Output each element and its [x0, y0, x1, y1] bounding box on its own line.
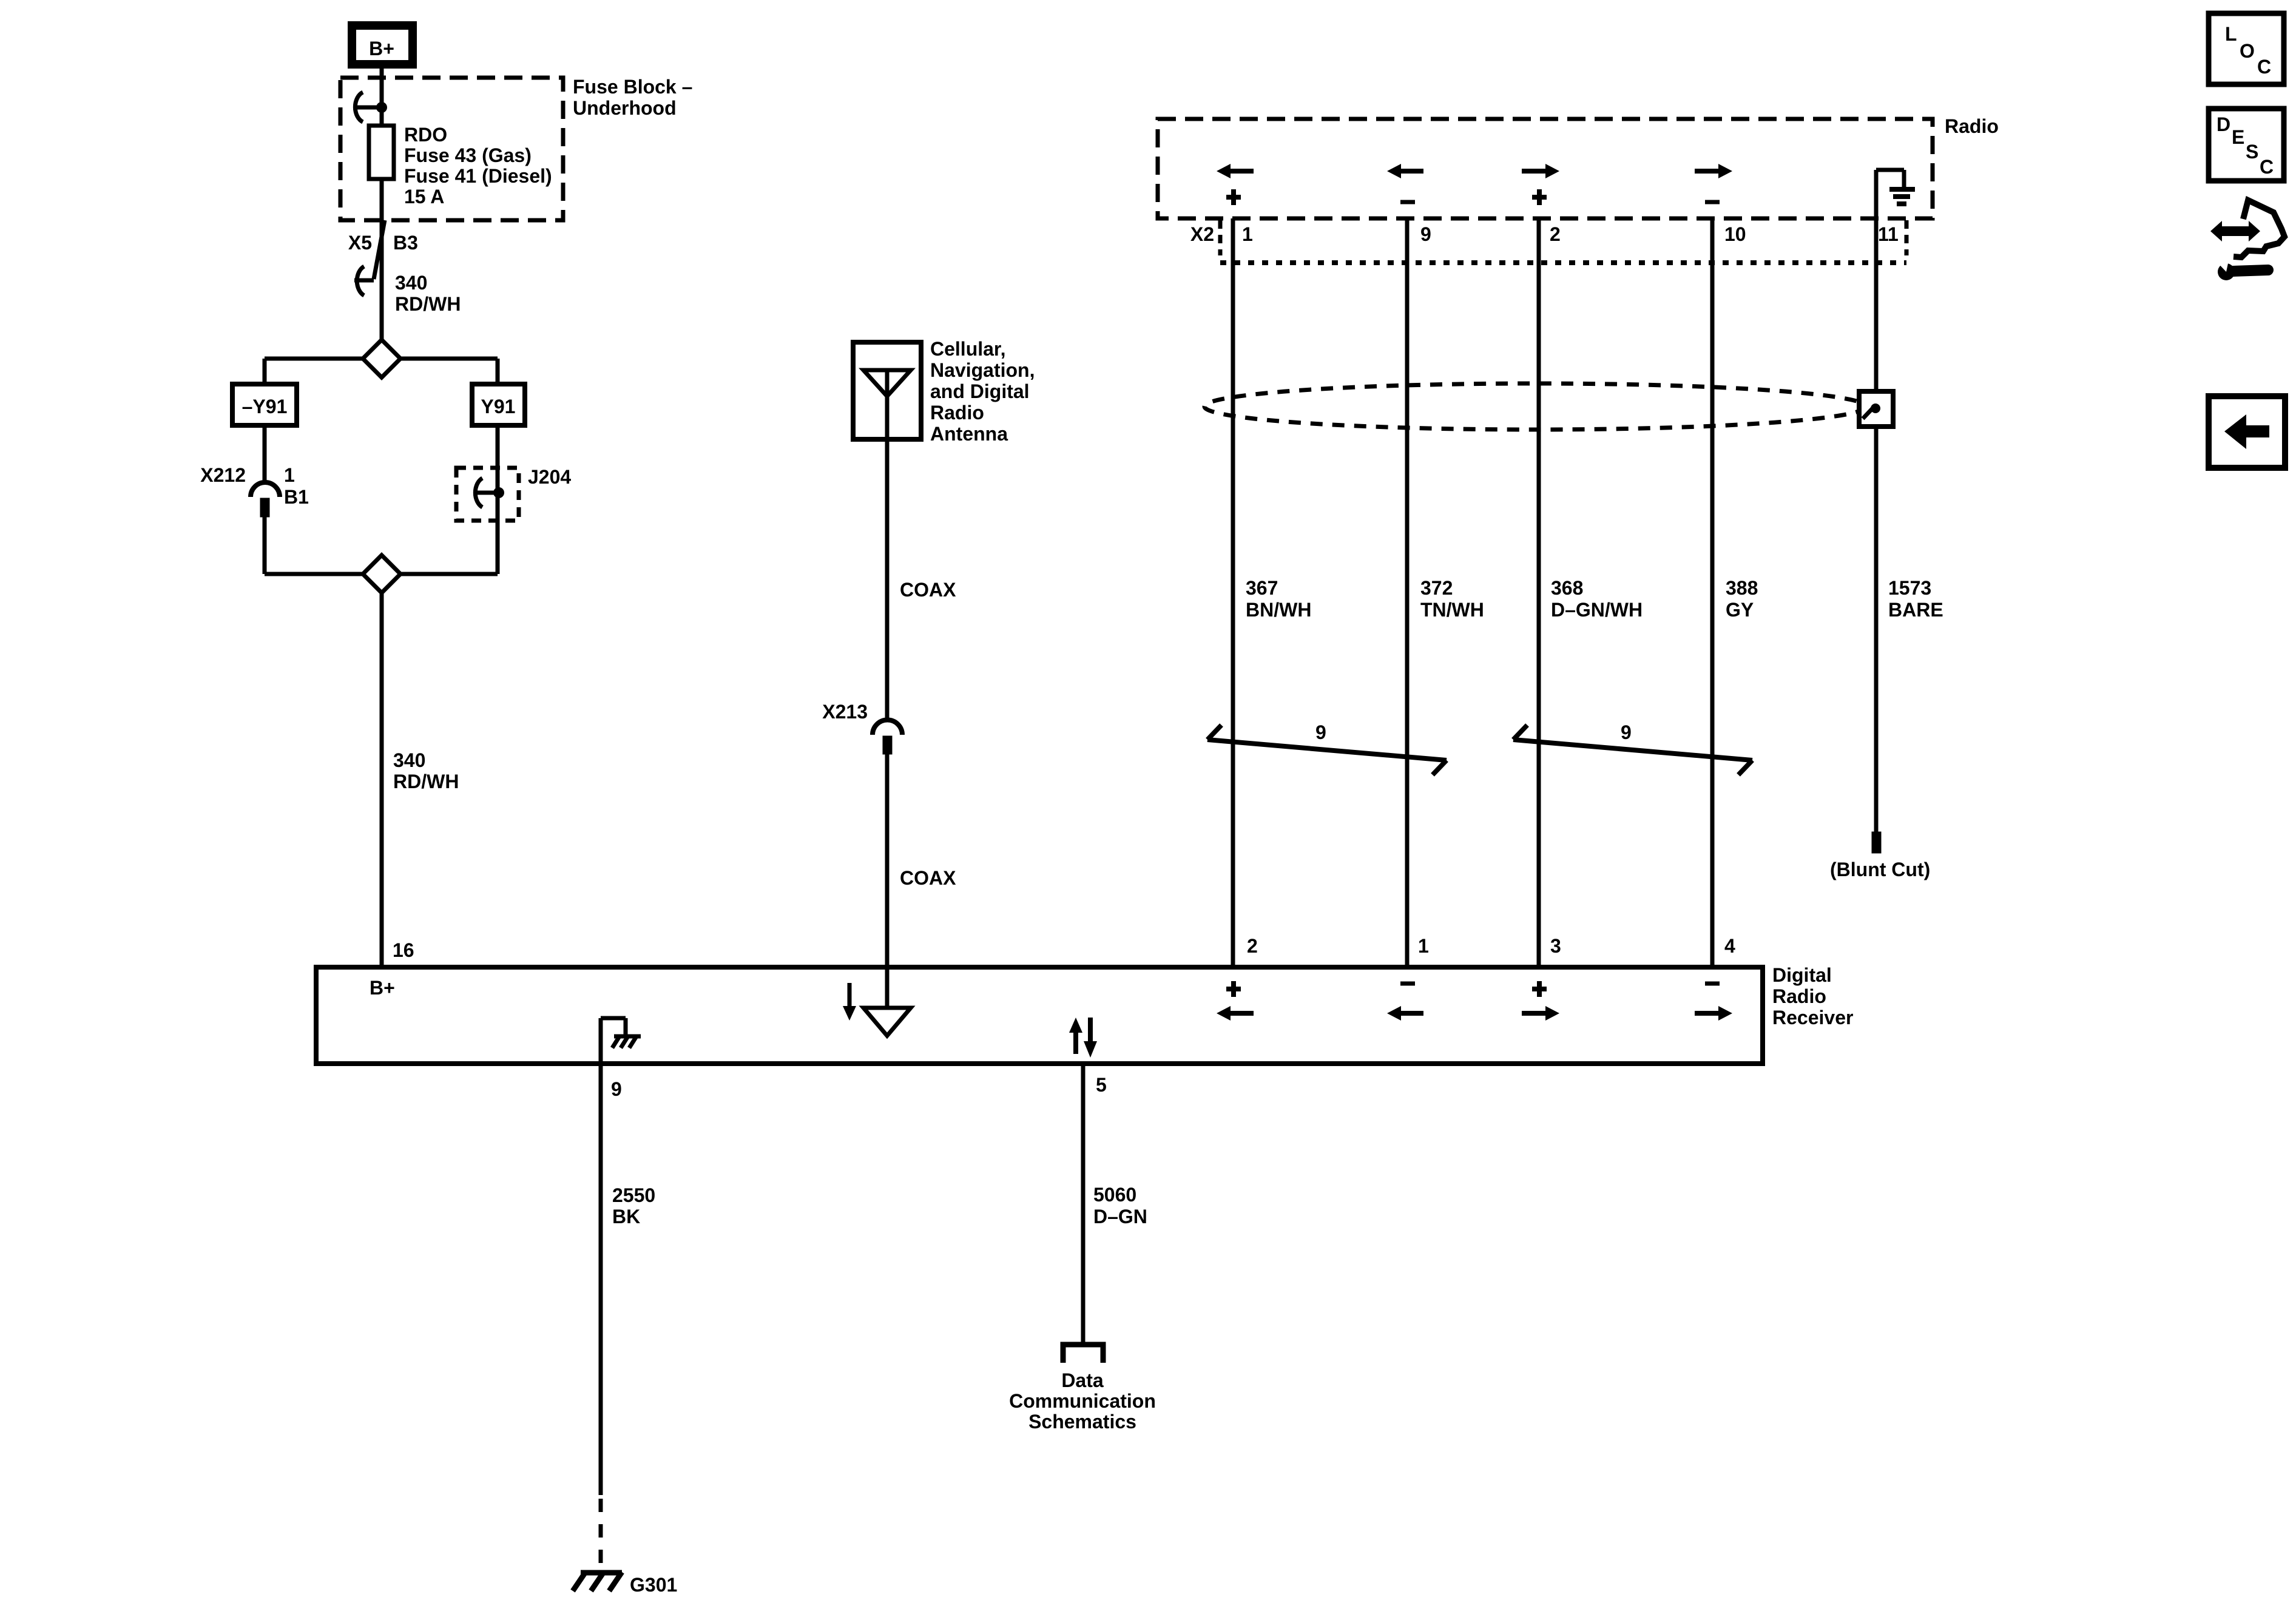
svg-text:S: S [2246, 141, 2258, 163]
svg-text:D–GN: D–GN [1093, 1206, 1147, 1227]
svg-text:Fuse 41 (Diesel): Fuse 41 (Diesel) [404, 165, 552, 187]
svg-text:RD/WH: RD/WH [393, 771, 459, 792]
svg-text:B+: B+ [369, 38, 394, 59]
svg-text:9: 9 [611, 1078, 622, 1100]
svg-text:Receiver: Receiver [1772, 1007, 1853, 1028]
svg-text:9: 9 [1621, 721, 1632, 743]
svg-text:BK: BK [612, 1206, 640, 1227]
svg-text:(Blunt Cut): (Blunt Cut) [1830, 859, 1930, 880]
svg-text:BN/WH: BN/WH [1246, 599, 1311, 621]
svg-text:B3: B3 [393, 232, 418, 254]
svg-text:340: 340 [393, 749, 425, 771]
svg-text:388: 388 [1726, 577, 1758, 599]
svg-text:Cellular,: Cellular, [930, 338, 1006, 360]
svg-text:Communication: Communication [1009, 1390, 1156, 1412]
svg-text:BARE: BARE [1888, 599, 1943, 621]
svg-text:GY: GY [1726, 599, 1754, 621]
svg-text:2: 2 [1247, 935, 1258, 957]
svg-text:RDO: RDO [404, 124, 447, 146]
svg-text:G301: G301 [630, 1574, 677, 1596]
svg-text:1: 1 [1242, 223, 1253, 245]
svg-text:367: 367 [1246, 577, 1278, 599]
svg-text:372: 372 [1420, 577, 1453, 599]
svg-text:4: 4 [1724, 935, 1735, 957]
svg-text:2550: 2550 [612, 1184, 655, 1206]
svg-text:Data: Data [1061, 1369, 1104, 1391]
svg-text:C: C [2257, 56, 2271, 78]
svg-text:16: 16 [393, 939, 414, 961]
svg-text:RD/WH: RD/WH [395, 293, 461, 315]
svg-text:D–GN/WH: D–GN/WH [1551, 599, 1643, 621]
svg-text:L: L [2225, 23, 2237, 45]
svg-text:Fuse Block –: Fuse Block – [573, 76, 692, 98]
svg-text:Y91: Y91 [481, 396, 516, 417]
svg-text:and Digital: and Digital [930, 380, 1030, 402]
svg-text:Radio: Radio [930, 402, 984, 424]
svg-text:O: O [2240, 40, 2255, 62]
svg-text:9: 9 [1420, 223, 1431, 245]
svg-text:Underhood: Underhood [573, 97, 677, 119]
svg-text:D: D [2217, 113, 2230, 135]
svg-text:X2: X2 [1190, 223, 1214, 245]
svg-text:Antenna: Antenna [930, 423, 1008, 445]
svg-text:9: 9 [1315, 721, 1326, 743]
svg-text:B1: B1 [284, 486, 309, 508]
svg-text:J204: J204 [528, 466, 571, 488]
svg-text:Digital: Digital [1772, 964, 1832, 986]
svg-text:1573: 1573 [1888, 577, 1931, 599]
svg-text:15 A: 15 A [404, 186, 444, 208]
svg-text:X5: X5 [348, 232, 372, 254]
svg-text:5: 5 [1096, 1074, 1107, 1096]
svg-text:X212: X212 [200, 464, 246, 486]
svg-text:1: 1 [284, 464, 295, 486]
svg-text:Schematics: Schematics [1028, 1411, 1136, 1433]
svg-text:11: 11 [1878, 223, 1899, 245]
svg-text:E: E [2232, 126, 2244, 148]
svg-text:3: 3 [1550, 935, 1561, 957]
svg-text:340: 340 [395, 272, 427, 294]
svg-text:TN/WH: TN/WH [1420, 599, 1484, 621]
svg-text:Radio: Radio [1772, 985, 1826, 1007]
svg-text:368: 368 [1551, 577, 1583, 599]
svg-text:X213: X213 [822, 701, 868, 723]
svg-text:COAX: COAX [900, 867, 956, 889]
svg-text:1: 1 [1418, 935, 1429, 957]
svg-text:5060: 5060 [1093, 1184, 1136, 1206]
svg-text:C: C [2260, 156, 2274, 178]
svg-text:B+: B+ [370, 977, 395, 999]
svg-text:–Y91: –Y91 [242, 396, 288, 417]
svg-text:COAX: COAX [900, 579, 956, 601]
svg-text:2: 2 [1550, 223, 1561, 245]
svg-text:Navigation,: Navigation, [930, 359, 1035, 381]
svg-text:Fuse 43 (Gas): Fuse 43 (Gas) [404, 144, 532, 166]
svg-text:10: 10 [1724, 223, 1746, 245]
svg-text:Radio: Radio [1945, 115, 1999, 137]
